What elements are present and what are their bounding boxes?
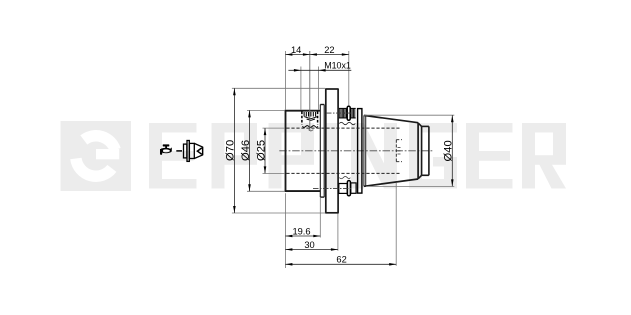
dim line 19.6 — [285, 235, 320, 237]
dimension texts — [225, 45, 455, 265]
dim line 14 22 — [285, 54, 348, 56]
o-ring top — [347, 106, 350, 120]
ext line collar bottom — [319, 198, 321, 238]
arrows dim D70 — [233, 88, 236, 95]
coolant flow arrow — [176, 150, 182, 152]
ext line flange right bottom — [337, 214, 339, 251]
bottom band rect 1 — [339, 184, 347, 194]
arrows dim 62 — [285, 263, 292, 266]
thread hatch of M10 hole — [304, 112, 316, 117]
bottom band rect 2 — [351, 183, 356, 193]
svg-text:14: 14 — [291, 45, 301, 55]
taper cone outline — [364, 115, 418, 186]
washer ring — [358, 109, 362, 194]
mini part icon — [184, 141, 203, 162]
internal thread marks — [398, 148, 401, 155]
svg-text:30: 30 — [304, 240, 314, 250]
svg-text:Ø40: Ø40 — [442, 140, 454, 161]
ext line D70 top — [232, 87, 325, 89]
svg-text:Ø70: Ø70 — [225, 140, 237, 161]
ext line M10 right — [318, 67, 320, 110]
arrows dim 19.6 — [285, 235, 292, 238]
ext line left face top — [284, 51, 286, 110]
ext line D40 top — [364, 114, 454, 116]
hidden bore D25 bottom — [286, 172, 399, 174]
o-ring bottom — [347, 181, 350, 196]
centerline main axis — [279, 150, 434, 152]
hidden internal thread pocket — [396, 140, 402, 162]
arrows dim D46 — [248, 110, 251, 117]
ext line M10 left — [300, 67, 302, 110]
dim line D40 — [451, 115, 453, 186]
arrows dim 22 — [310, 53, 317, 56]
svg-text:62: 62 — [336, 255, 346, 265]
arrows M10 outside — [294, 69, 301, 72]
svg-text:22: 22 — [324, 45, 334, 55]
dim line 62 — [285, 263, 396, 265]
ext line left face bottom — [284, 193, 286, 268]
watermark letters EPPINGER — [149, 123, 566, 189]
ext line oring center — [348, 51, 350, 106]
hole axis — [309, 51, 311, 131]
arrows dim 30 — [285, 248, 292, 251]
ext line D25 bottom — [263, 172, 286, 174]
threaded hole M10x1 — [302, 112, 318, 125]
arrows dim 14 — [285, 53, 292, 56]
thread band top (right of flange) — [339, 108, 356, 118]
coolant faucet icon — [160, 144, 172, 155]
screw axis top — [326, 112, 353, 114]
arrows dim D25 — [264, 128, 267, 135]
thread band top hatch — [340, 109, 355, 118]
arrows dim D40 — [451, 115, 454, 122]
collar ring D52 — [320, 105, 324, 198]
dim line 30 — [285, 249, 338, 251]
M10 leader line — [288, 69, 351, 71]
thread-in-bore squiggle — [302, 126, 318, 128]
ext line D25 top — [263, 127, 286, 129]
watermark logo e-glyph — [76, 136, 115, 176]
drill tip through bore — [308, 130, 313, 131]
svg-text:Ø46: Ø46 — [240, 140, 252, 161]
body cylinder D46 outline — [285, 111, 321, 192]
svg-text:M10x1: M10x1 — [324, 61, 351, 71]
end cylinder — [418, 123, 429, 179]
cone base faces — [363, 115, 365, 186]
svg-text:Ø25: Ø25 — [255, 140, 267, 161]
svg-text:19.6: 19.6 — [292, 226, 310, 236]
thread runout wave bottom — [339, 177, 350, 179]
dim line D25 — [264, 128, 266, 173]
ext line cone gauge bottom — [395, 183, 397, 266]
thread runout wave top — [339, 122, 355, 124]
dim line D70 — [233, 88, 235, 213]
screw axis bottom — [313, 188, 353, 190]
drill point chevrons — [304, 117, 317, 121]
arrowheads — [233, 53, 454, 265]
dim line D46 — [249, 110, 251, 191]
hidden bore D25 top — [286, 127, 399, 129]
ext line D40 bottom — [366, 185, 454, 187]
ext line D70 bottom — [232, 212, 325, 214]
ext line D46 bottom — [247, 190, 285, 192]
flange D70 — [325, 89, 339, 213]
watermark logo square — [61, 121, 132, 191]
ext line D46 top — [247, 109, 285, 111]
